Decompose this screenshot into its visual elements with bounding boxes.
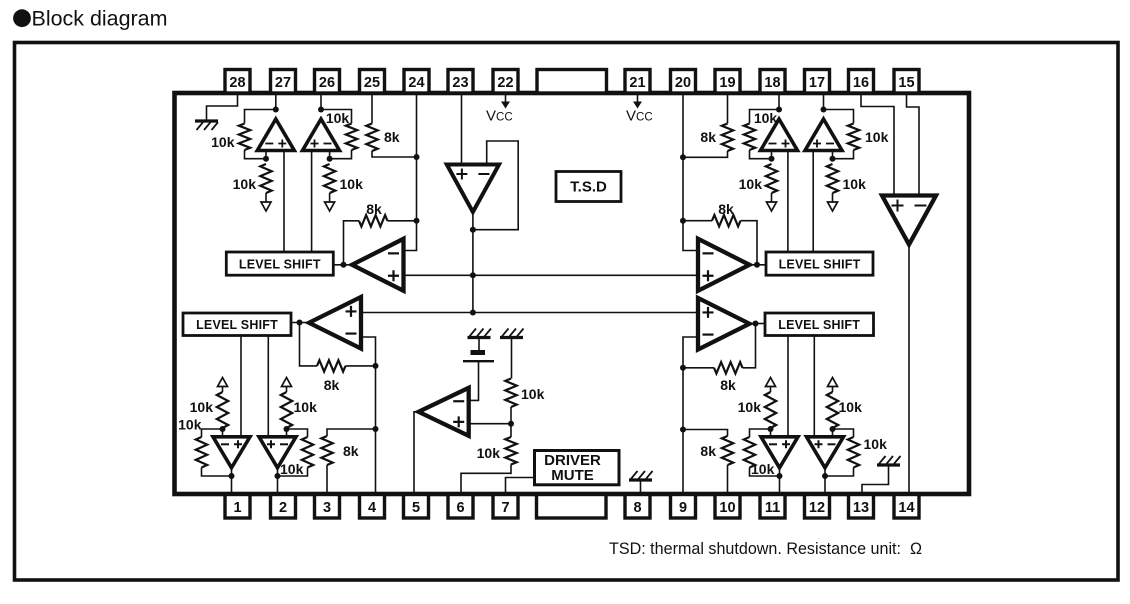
node at U2 minus input: [327, 156, 333, 162]
svg-text:24: 24: [408, 75, 424, 91]
resistor R17 10k (arrow to U5 minus input): [190, 387, 229, 429]
pin 15: [894, 70, 919, 94]
op-amp U12: [882, 196, 936, 245]
wire LEVEL SHIFT 1 to U3 output: [333, 264, 352, 266]
resistor R6 8k (U3 feedback): [344, 201, 417, 265]
node at U9 output: [776, 107, 782, 113]
wire pin 23 to U7 plus input: [461, 93, 463, 165]
pin 6: [448, 495, 473, 519]
arrow terminal below R12: [828, 202, 838, 211]
wire pin 26 to op-amp U2 output node: [320, 93, 322, 110]
svg-text:10k: 10k: [190, 399, 214, 415]
svg-text:15: 15: [898, 75, 914, 91]
wire U6 minus stub: [286, 429, 288, 437]
node pin24/R6: [414, 218, 420, 224]
svg-text:LEVEL SHIFT: LEVEL SHIFT: [779, 258, 861, 272]
wire pin 27 to op-amp U1 output node: [275, 93, 277, 110]
op-amp U1: [257, 119, 294, 151]
wire pin 28 to ground: [207, 93, 238, 120]
svg-text:22: 22: [497, 75, 513, 91]
node U7 feedback: [470, 227, 476, 233]
node at U9 minus input: [769, 156, 775, 162]
wire U10 minus input stub: [832, 151, 834, 159]
wire U15 minus stub: [832, 429, 834, 437]
pin 14: [894, 495, 919, 519]
Vcc supply arrow pin 22: [486, 95, 513, 125]
wire feedback node to pin 9: [682, 368, 684, 494]
svg-text:21: 21: [629, 75, 645, 91]
svg-text:3: 3: [323, 500, 331, 516]
resistor R23 10k (arrow to U14 minus input): [738, 387, 777, 429]
LEVEL SHIFT box 2: [183, 313, 291, 336]
wire U11 output to LEVEL SHIFT 3: [750, 264, 767, 266]
package notch bottom: [537, 495, 607, 519]
svg-text:4: 4: [368, 500, 376, 516]
svg-text:14: 14: [898, 500, 914, 516]
ground above capacitor: [468, 329, 492, 338]
resistor R19 10k (arrow to U6 minus input): [281, 387, 317, 429]
svg-text:10k: 10k: [738, 399, 762, 415]
pin 7: [493, 495, 518, 519]
arrow terminal above R23: [766, 378, 776, 387]
pin 11: [760, 495, 785, 519]
wire ground to capacitor: [478, 338, 480, 351]
wire U9 plus input to LEVEL SHIFT 3: [787, 151, 789, 253]
wire U1 minus input stub: [265, 151, 267, 159]
resistor R9 10k (U9 feedback): [744, 110, 779, 159]
svg-text:10k: 10k: [754, 110, 778, 126]
wire U6 output to pin 2: [277, 468, 279, 494]
wire pin 24 vertical: [404, 93, 417, 251]
svg-text:25: 25: [364, 75, 380, 91]
node U4 output: [297, 320, 303, 326]
resistor R20 10k (U6 feedback): [278, 429, 314, 477]
svg-text:10k: 10k: [864, 436, 888, 452]
node U13 feedback / pin 9: [680, 365, 686, 371]
svg-text:8k: 8k: [343, 443, 359, 459]
op-amp U14: [761, 437, 798, 468]
capacitor C1: [463, 350, 494, 361]
resistor R4 10k (U2 input to arrow): [324, 164, 363, 202]
pin 27: [271, 70, 296, 94]
svg-text:LEVEL SHIFT: LEVEL SHIFT: [196, 318, 278, 332]
ground near pin 28: [195, 121, 218, 130]
svg-text:10k: 10k: [233, 176, 257, 192]
wire ground to pin 13: [862, 465, 889, 494]
svg-text:LEVEL SHIFT: LEVEL SHIFT: [239, 258, 321, 272]
node U6 minus input: [284, 426, 290, 432]
resistor R18 10k (U5 feedback): [178, 417, 231, 477]
wire U1 plus input to LEVEL SHIFT 1: [283, 151, 285, 253]
resistor R11 10k (U10 feedback): [824, 110, 889, 159]
op-amp U15: [807, 437, 844, 468]
resistor R16 8k (to pin 10): [683, 430, 733, 495]
node U5 output: [229, 473, 235, 479]
resistor R24 10k (U14 feedback): [744, 429, 780, 477]
T.S.D box: [556, 172, 621, 202]
svg-text:10k: 10k: [211, 134, 235, 150]
resistor R12 10k (U10 input to arrow): [827, 164, 866, 202]
svg-text:13: 13: [853, 500, 869, 516]
LEVEL SHIFT box 3: [766, 252, 873, 275]
node R16 top: [680, 427, 686, 433]
pin 22: [493, 70, 518, 94]
op-amp U2: [303, 119, 340, 151]
op-amp U3: [352, 239, 404, 291]
wire U8 plus input: [469, 423, 511, 425]
wire LEVEL SHIFT 4 to U14 plus input: [787, 336, 789, 437]
wire capacitor to U8 minus input: [469, 361, 479, 400]
wire U10 plus input to LEVEL SHIFT 3: [812, 151, 814, 253]
pin 17: [805, 70, 830, 94]
resistor R2 10k (U1 input to arrow): [233, 164, 272, 202]
pin 25: [360, 70, 385, 94]
op-amp U9: [761, 119, 798, 151]
wire feedback node to pin 4: [375, 366, 377, 494]
node at U2 output: [318, 107, 324, 113]
DRIVER MUTE box: [535, 451, 620, 485]
pin 24: [404, 70, 429, 94]
svg-text:10k: 10k: [340, 176, 364, 192]
svg-text:7: 7: [501, 500, 509, 516]
resistor R25 10k (arrow to U15 minus input): [827, 387, 862, 429]
wire pin 20 vertical: [683, 93, 698, 251]
resistor R7 8k (pin 19 to pin 20 node): [683, 93, 733, 157]
wire LEVEL SHIFT 2 to U4 output: [291, 322, 309, 324]
pin 1: [225, 495, 250, 519]
svg-text:8k: 8k: [700, 443, 716, 459]
svg-text:10k: 10k: [326, 110, 350, 126]
svg-text:10k: 10k: [280, 461, 304, 477]
node U7 output / bus A: [470, 272, 476, 278]
wire LEVEL SHIFT 2 to U5 plus input: [240, 336, 242, 437]
wire U15 output to pin 12: [824, 468, 826, 494]
op-amp U13: [698, 298, 750, 350]
wire U14 output to pin 11: [779, 468, 781, 494]
wire U12 output to pin 14: [908, 245, 910, 495]
node U3 output: [341, 262, 347, 268]
svg-text:TSD: thermal shutdown. Resista: TSD: thermal shutdown. Resistance unit: …: [609, 539, 922, 558]
bus A: U3 plus input to U11 plus input: [404, 274, 699, 276]
svg-text:10k: 10k: [839, 399, 863, 415]
pin 9: [671, 495, 696, 519]
pin 10: [715, 495, 740, 519]
node pin20/R7: [680, 154, 686, 160]
svg-text:10k: 10k: [178, 417, 202, 433]
arrow terminal above R17: [218, 378, 228, 387]
svg-text:10k: 10k: [477, 445, 501, 461]
svg-text:18: 18: [764, 75, 780, 91]
wire U13 output to LEVEL SHIFT 4: [750, 323, 766, 325]
svg-text:8k: 8k: [324, 377, 340, 393]
pin 28: [225, 70, 250, 94]
op-amp U8: [419, 388, 469, 436]
resistor R5 8k (pin 25 to pin 24 node): [366, 93, 416, 157]
IC body outline: [175, 93, 970, 494]
svg-text:5: 5: [412, 500, 420, 516]
node at U10 minus input: [830, 156, 836, 162]
svg-text:8: 8: [633, 500, 641, 516]
op-amp U7: [447, 165, 499, 213]
pin 23: [448, 70, 473, 94]
pin 16: [849, 70, 874, 94]
svg-text:27: 27: [275, 75, 291, 91]
svg-text:10k: 10k: [739, 176, 763, 192]
svg-text:26: 26: [319, 75, 335, 91]
node at U10 output: [821, 107, 827, 113]
svg-text:10k: 10k: [521, 386, 545, 402]
op-amp U4: [309, 297, 361, 349]
resistor R1 10k (U1 feedback): [211, 110, 276, 159]
svg-text:10k: 10k: [865, 129, 889, 145]
wire pin 18 to op-amp U9 output node: [778, 93, 780, 110]
node U13 output: [753, 321, 759, 327]
pin 3: [315, 495, 340, 519]
pin 21: [625, 70, 650, 94]
wire U2 minus input stub: [329, 151, 331, 159]
svg-text:11: 11: [765, 500, 780, 516]
arrow terminal below R10: [767, 202, 777, 211]
wire U8 output to pin 5: [414, 412, 419, 494]
ground above R21: [500, 329, 524, 338]
wire U13 minus input to R15 node: [683, 337, 698, 368]
resistor R22 10k (to pin 6): [461, 424, 517, 494]
resistor R21 10k (ground to U8 plus): [505, 379, 544, 424]
resistor R26 10k (U15 feedback): [825, 429, 887, 476]
svg-text:20: 20: [675, 75, 691, 91]
ground above pin 8: [629, 471, 653, 480]
pin 26: [315, 70, 340, 94]
svg-text:8k: 8k: [366, 201, 382, 217]
wire U7 output vertical: [472, 212, 474, 313]
svg-text:23: 23: [452, 75, 468, 91]
wire U5 minus stub: [222, 429, 224, 437]
svg-text:1: 1: [233, 500, 241, 516]
node U14 output: [777, 473, 783, 479]
wire ground to R21: [511, 338, 513, 379]
wire LEVEL SHIFT 4 to U15 plus input: [813, 336, 815, 437]
svg-text:2: 2: [279, 500, 287, 516]
svg-text:8k: 8k: [700, 129, 716, 145]
pin 5: [404, 495, 429, 519]
bus B: U4 plus input to U13 plus input: [361, 312, 698, 314]
node U5 minus input: [220, 426, 226, 432]
Vcc supply arrow pin 21: [626, 95, 653, 125]
node at U1 output: [273, 107, 279, 113]
arrow terminal above R19: [282, 378, 292, 387]
wire pin 16 to U12 plus input: [861, 93, 894, 196]
op-amp U5: [213, 437, 250, 468]
pin 20: [671, 70, 696, 94]
svg-text:28: 28: [229, 75, 245, 91]
arrow terminal above R25: [828, 378, 838, 387]
svg-text:9: 9: [679, 500, 687, 516]
svg-text:LEVEL SHIFT: LEVEL SHIFT: [778, 318, 860, 332]
wire U5 output to pin 1: [231, 468, 233, 494]
ground near pin 13: [877, 456, 901, 465]
svg-text:8k: 8k: [720, 377, 736, 393]
wire U14 minus stub: [770, 429, 772, 437]
node U11 output: [754, 262, 760, 268]
svg-text:MUTE: MUTE: [551, 467, 594, 484]
pin 4: [360, 495, 385, 519]
svg-text:6: 6: [456, 500, 464, 516]
svg-text:Block diagram: Block diagram: [32, 8, 168, 31]
node U4 feedback / pin 4: [373, 363, 379, 369]
resistor R14 8k (to pin 3): [321, 429, 375, 494]
title: Block diagram: [13, 8, 167, 31]
svg-text:19: 19: [719, 75, 735, 91]
pin 8: [625, 495, 650, 519]
wire U7 feedback loop: [473, 141, 518, 230]
arrow terminal below R2: [261, 202, 271, 211]
node pin20/R8: [680, 218, 686, 224]
op-amp U11: [698, 239, 750, 291]
wire pin 15 to U12 minus input: [907, 93, 920, 196]
pin 12: [805, 495, 830, 519]
svg-text:17: 17: [809, 75, 825, 91]
resistor R13 8k (U4 feedback): [300, 323, 376, 394]
svg-text:8k: 8k: [718, 201, 734, 217]
node R14 top: [373, 426, 379, 432]
svg-text:16: 16: [853, 75, 869, 91]
LEVEL SHIFT box 1: [226, 252, 333, 275]
resistor R10 10k (U9 input to arrow): [739, 164, 778, 202]
node U14 minus input: [768, 426, 774, 432]
arrow terminal below R4: [325, 202, 335, 211]
wire U4 minus input to R13 node: [361, 337, 376, 366]
op-amp U10: [805, 119, 842, 151]
node U15 output: [822, 473, 828, 479]
wire LEVEL SHIFT 2 to U6 plus input: [267, 336, 269, 437]
svg-text:T.S.D: T.S.D: [570, 179, 607, 196]
op-amp U6: [259, 437, 296, 468]
resistor R15 8k (U13 feedback): [683, 324, 756, 394]
node pin24/R5: [414, 154, 420, 160]
node U6 output: [275, 473, 281, 479]
pin 18: [760, 70, 785, 94]
wire pin 17 to op-amp U10 output node: [823, 93, 825, 110]
wire DRIVER MUTE to pin 7: [506, 478, 535, 495]
node U15 minus input: [830, 426, 836, 432]
svg-text:10k: 10k: [843, 176, 867, 192]
svg-text:10k: 10k: [751, 461, 775, 477]
LEVEL SHIFT box 4: [765, 313, 874, 336]
resistor R3 10k (U2 feedback): [321, 110, 357, 159]
wire U9 minus input stub: [771, 151, 773, 159]
pin 19: [715, 70, 740, 94]
wire U2 plus input to LEVEL SHIFT 1: [311, 151, 313, 253]
wire ground to pin 8: [640, 480, 642, 494]
package notch top: [537, 70, 607, 94]
svg-text:12: 12: [809, 500, 825, 516]
pin 2: [271, 495, 296, 519]
svg-text:8k: 8k: [384, 129, 400, 145]
svg-text:10: 10: [719, 500, 735, 516]
svg-text:10k: 10k: [294, 399, 318, 415]
node U7 output / bus B: [470, 310, 476, 316]
node at U1 minus input: [263, 156, 269, 162]
resistor R8 8k (U11 feedback): [683, 201, 757, 265]
node U8 plus / R21 / R22: [508, 421, 514, 427]
pin 13: [849, 495, 874, 519]
